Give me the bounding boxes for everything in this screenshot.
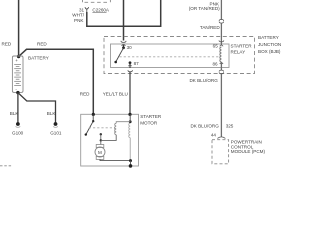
solenoid hold-in winding <box>129 114 131 121</box>
mechanical link dashed relay <box>120 56 220 58</box>
wire WHT/PNK <box>87 0 161 26</box>
battery junction box BJB dashed <box>104 37 255 74</box>
svg-text:(OR TAN/RED): (OR TAN/RED) <box>189 6 220 11</box>
node case ground <box>129 164 133 168</box>
svg-text:RED: RED <box>37 41 47 46</box>
node starter feed <box>92 113 95 116</box>
svg-text:RED: RED <box>80 91 90 96</box>
node battery negative <box>16 91 19 94</box>
wire relay 86 out <box>220 62 222 70</box>
svg-text:BATTERY: BATTERY <box>28 56 49 61</box>
svg-text:325: 325 <box>226 124 234 129</box>
svg-text:STARTER: STARTER <box>140 114 162 119</box>
dotted fragment bottom left <box>0 165 12 167</box>
starter motor box <box>81 114 139 166</box>
starter relay box <box>111 44 230 68</box>
svg-text:65: 65 <box>213 44 219 49</box>
svg-text:MOTOR: MOTOR <box>140 120 158 125</box>
svg-text:RELAY: RELAY <box>231 50 246 55</box>
svg-text:+: + <box>15 58 18 63</box>
node solenoid junction <box>129 120 132 123</box>
wire RED battery to starter <box>19 49 94 114</box>
node solenoid feed <box>128 113 131 116</box>
wire ignition feed to relay pin 30 <box>123 0 125 41</box>
svg-text:PNK: PNK <box>74 18 84 23</box>
relay coil <box>220 47 222 62</box>
connector inline PNK <box>219 19 224 23</box>
svg-text:BOX (BJB): BOX (BJB) <box>258 49 281 54</box>
svg-text:86: 86 <box>212 61 218 66</box>
node relay pin 87 <box>129 61 132 64</box>
svg-text:G100: G100 <box>12 130 24 135</box>
starter switch <box>92 114 94 121</box>
wire pin 87 down <box>129 63 131 68</box>
svg-text:M: M <box>98 150 102 155</box>
wire case ground <box>130 161 132 166</box>
relay coil pin 65 <box>219 40 224 46</box>
starter contact upper <box>100 133 102 135</box>
svg-text:30: 30 <box>127 45 133 50</box>
svg-text:STARTER: STARTER <box>231 44 253 49</box>
wire to pin 30 <box>123 44 125 48</box>
wire YEL/LT BLU <box>129 72 131 115</box>
svg-text:BLK: BLK <box>10 111 20 116</box>
connector inline at BJB top <box>121 41 126 46</box>
svg-text:44: 44 <box>211 132 217 137</box>
node battery positive <box>17 55 20 58</box>
dashed box fragment top <box>83 0 111 2</box>
powertrain control module box dashed <box>212 140 229 164</box>
svg-text:C2260A: C2260A <box>92 7 110 12</box>
wire DK BLU/ORG <box>220 74 222 137</box>
svg-text:BATTERY: BATTERY <box>258 35 279 40</box>
mechanical link dashed starter <box>89 128 115 133</box>
wire motor ground <box>100 159 131 160</box>
svg-text:WHT/: WHT/ <box>72 13 84 18</box>
svg-text:YEL/LT BLU: YEL/LT BLU <box>103 91 128 96</box>
svg-text:TAN/RED: TAN/RED <box>200 25 221 30</box>
svg-text:87: 87 <box>134 61 140 66</box>
node motor ground <box>129 159 132 162</box>
starter motor M <box>95 145 105 160</box>
connector inline BJB bottom <box>219 70 224 74</box>
svg-text:DK BLU/ORG: DK BLU/ORG <box>190 124 219 129</box>
wire BLK to G101 <box>18 93 56 123</box>
svg-text:BLK: BLK <box>47 111 57 116</box>
node relay pin 30 <box>122 46 125 49</box>
connector pin 44 PCM <box>217 137 225 139</box>
ground G101 <box>54 122 58 126</box>
wire motor feed <box>100 140 102 144</box>
wire battery positive feed vertical <box>18 0 20 57</box>
svg-text:MODULE (PCM): MODULE (PCM) <box>231 149 266 154</box>
battery <box>12 56 23 92</box>
relay armature blade <box>116 48 124 62</box>
relay coil pin 86 <box>220 63 223 64</box>
svg-text:RED: RED <box>2 41 12 46</box>
connector below relay <box>128 65 133 72</box>
wire BLK to G100 <box>17 93 19 123</box>
wire PNK top right <box>220 0 222 20</box>
svg-text:G101: G101 <box>50 130 62 135</box>
connector pin C2260A <box>85 7 89 12</box>
svg-text:JUNCTION: JUNCTION <box>258 42 281 47</box>
wire TAN/RED <box>220 23 222 45</box>
starter contact lower <box>100 134 102 140</box>
svg-text:DK BLU/ORG: DK BLU/ORG <box>189 78 218 83</box>
ground G100 <box>16 122 20 126</box>
solenoid pull-in winding <box>116 122 130 124</box>
